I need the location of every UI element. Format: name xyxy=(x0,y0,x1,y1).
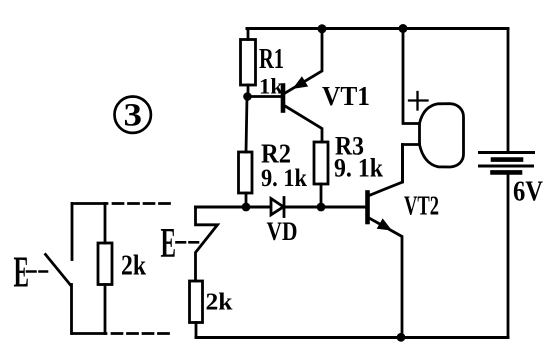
switch E1 upper contact wire xyxy=(71,204,74,260)
VT1 emitter wire xyxy=(284,29,323,94)
resistor 2k (right) xyxy=(190,281,203,338)
wire: base rail (diode row) xyxy=(196,206,367,209)
resistor R3 xyxy=(314,142,328,207)
switch E1 lower wire xyxy=(70,285,73,334)
node: top rail / VT1 emitter junction xyxy=(318,24,327,33)
alternative sensor box: bottom dashed edge xyxy=(72,332,171,335)
resistor 2k (left) xyxy=(98,204,112,334)
node: top rail / sounder branch junction xyxy=(399,24,408,33)
svg-text:R1: R1 xyxy=(259,43,284,75)
svg-text:2k: 2k xyxy=(206,290,234,316)
node: R3 bottom junction xyxy=(317,203,326,212)
VT1 collector wire xyxy=(285,106,322,142)
polarity + mark xyxy=(409,92,428,110)
svg-text:VD: VD xyxy=(267,217,298,246)
VT2 base bar xyxy=(365,193,370,223)
svg-text:VT2: VT2 xyxy=(404,191,439,221)
wire: bottom rail xyxy=(196,336,508,339)
transistor VT2 (NPN) xyxy=(368,145,403,338)
VT1 emitter arrow xyxy=(294,77,308,88)
VT2 emitter arrow xyxy=(378,219,392,230)
svg-text:3: 3 xyxy=(124,98,143,134)
sounder lower terminal wire xyxy=(403,145,420,183)
resistor R1 xyxy=(241,29,256,97)
svg-text:2k: 2k xyxy=(121,251,146,282)
figure number 3 (circled) xyxy=(115,97,151,134)
svg-text:6V: 6V xyxy=(513,176,543,208)
wire: top rail xyxy=(247,27,508,30)
battery GB 6V xyxy=(480,153,534,173)
switch E1 lever xyxy=(46,255,71,286)
VT1 base bar xyxy=(281,86,286,111)
sounder body xyxy=(420,104,464,167)
svg-text:VT1: VT1 xyxy=(322,81,370,111)
dashed lead from E2 xyxy=(177,241,200,244)
dashed lead from E1 xyxy=(27,270,47,273)
battery plate short 2 xyxy=(493,170,521,175)
VT2 collector wire xyxy=(369,145,403,196)
wire: right rail top (battery +) xyxy=(507,29,510,153)
svg-text:E: E xyxy=(161,221,177,267)
node: R1/R2/VT1-base junction xyxy=(243,92,252,101)
node: R2 bottom junction xyxy=(242,203,251,212)
diode VD xyxy=(271,198,284,217)
VT2 emitter wire xyxy=(369,218,402,338)
svg-text:9. 1k: 9. 1k xyxy=(334,154,383,183)
node: VT2 emitter / bottom rail junction xyxy=(397,333,406,342)
touch electrode E2 gap (zigzag) xyxy=(196,207,218,281)
battery plate short 1 xyxy=(493,157,521,162)
battery plate long 2 xyxy=(480,165,533,168)
battery plate long 1 xyxy=(480,151,534,154)
svg-text:9. 1k: 9. 1k xyxy=(261,165,307,192)
svg-text:1k: 1k xyxy=(259,74,284,99)
transistor VT1 (PNP) xyxy=(248,29,323,142)
resistor R2 xyxy=(239,97,253,208)
alternative sensor box: top dashed edge xyxy=(72,202,171,205)
VT1 base wire xyxy=(248,95,282,98)
sounder (earphone) branch wire from top rail xyxy=(403,29,420,124)
wire: right rail bottom (battery -) xyxy=(507,172,510,337)
